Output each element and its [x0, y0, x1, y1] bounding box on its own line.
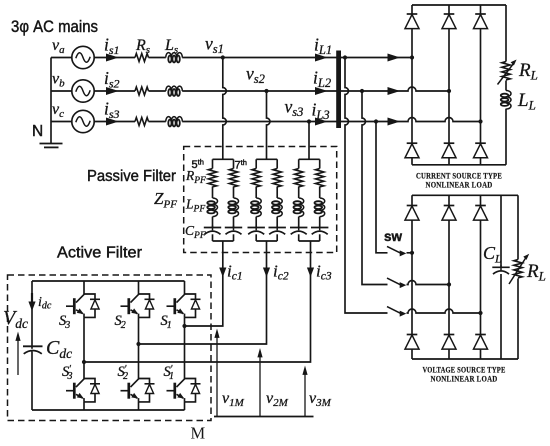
- diode bridge2 bottom leg1: [405, 335, 419, 350]
- wire phase2 to bridge leg2: [182, 87, 449, 91]
- passive filter group 2 top tee: [256, 158, 277, 160]
- inductor LPF branch: [251, 198, 261, 217]
- svg-text:Passive Filter: Passive Filter: [87, 168, 177, 185]
- load current arrow into bridge: [388, 118, 401, 126]
- AC source vc: [72, 110, 94, 132]
- wire: [233, 234, 235, 241]
- switch: [387, 278, 406, 288]
- capacitor branch bridge2: [500, 195, 502, 359]
- wire switch row3 to leg3: [407, 309, 481, 313]
- svg-text:NONLINEAR LOAD: NONLINEAR LOAD: [426, 181, 493, 190]
- junction: [410, 55, 414, 59]
- svg-text:N: N: [32, 123, 43, 140]
- node phase3 feed: [374, 119, 378, 123]
- wire source vc to R: [94, 121, 135, 123]
- passive filter dashed box: [184, 147, 337, 253]
- capacitor Cdc: [23, 346, 43, 354]
- IGBT S3 prime: [66, 379, 100, 402]
- wire leg 2 bottom: [138, 402, 140, 410]
- wire ic3 vertical: [84, 241, 311, 362]
- resistor RPF branch: [229, 169, 237, 187]
- wire switch row1 to leg1: [407, 252, 413, 254]
- load current arrow into bridge: [388, 54, 401, 62]
- diode bridge2 top leg3: [474, 206, 488, 221]
- resistor RPF branch: [208, 169, 216, 187]
- active filter dashed box: [8, 275, 212, 421]
- resistor branch bridge2: [517, 195, 519, 359]
- resistor Rs phase 2: [135, 87, 149, 95]
- bridge2 leg 2: [448, 195, 450, 359]
- capacitor CPF branch: [225, 226, 242, 235]
- diode bridge1 top leg2: [442, 14, 456, 29]
- load current arrow iL before bus: [315, 87, 328, 95]
- switch: [387, 307, 406, 317]
- capacitor CPF branch: [204, 226, 221, 235]
- svg-text:S′3: S′3: [62, 364, 72, 382]
- bridge1 top rail: [412, 4, 506, 6]
- IGBT S1 prime: [167, 379, 201, 402]
- inductor LPF branch: [228, 198, 238, 217]
- current arrow is1: [106, 54, 119, 62]
- wire: [319, 217, 321, 228]
- bridge2 leg 3: [480, 195, 482, 359]
- resistor RPF branch: [295, 169, 303, 187]
- node vs3: [307, 119, 311, 123]
- RLC branch wire top: [212, 159, 214, 168]
- inductor Ls phase 2: [166, 86, 183, 96]
- node vs2: [264, 89, 268, 93]
- svg-text:VOLTAGE SOURCE TYPE: VOLTAGE SOURCE TYPE: [423, 366, 506, 375]
- wire: [233, 187, 235, 199]
- current arrow is3: [106, 118, 119, 126]
- wire phase2 down to switch row2: [362, 91, 388, 285]
- bridge2 leg 1: [411, 195, 413, 359]
- resistor RPF branch: [316, 169, 324, 187]
- node vs1: [221, 55, 225, 59]
- wire leg 1 top: [83, 281, 85, 294]
- wire: [276, 234, 278, 241]
- wire leg 3 bottom: [184, 402, 186, 410]
- passive filter group 3 bottom join: [299, 240, 320, 242]
- arrow ic1: [219, 268, 226, 278]
- IGBT S2: [121, 294, 155, 317]
- arrow ic3: [307, 268, 314, 278]
- capacitor CPF branch: [311, 226, 328, 235]
- wire: [255, 234, 257, 241]
- wire leg 1 bottom: [83, 402, 85, 410]
- wire vs3 down to passive filter: [308, 122, 310, 160]
- diode bridge1 top leg1: [405, 14, 419, 29]
- load branch bridge1: [505, 5, 507, 165]
- wire phase3 down to switch row1: [376, 122, 388, 253]
- dc rail left: [31, 281, 33, 410]
- inductor LPF branch: [294, 198, 304, 217]
- wire R to L phase 3: [149, 121, 166, 123]
- diode bridge2 top leg1: [405, 206, 419, 221]
- arrow ic2: [263, 268, 270, 278]
- junction: [447, 282, 451, 286]
- wire leg 2 middle: [138, 317, 140, 378]
- wire: [319, 234, 321, 241]
- wire leg 1 middle: [83, 317, 85, 378]
- inductor LL bridge1: [501, 91, 511, 110]
- diode bridge1 bottom leg1: [405, 143, 419, 158]
- junction: [410, 251, 414, 255]
- RLC branch wire top: [276, 159, 278, 168]
- capacitor CPF branch: [290, 226, 307, 235]
- wire: [276, 187, 278, 199]
- inductor LPF branch: [207, 198, 217, 217]
- RLC branch wire top: [319, 159, 321, 168]
- wire leg 3 top: [184, 281, 186, 294]
- bus bar: [336, 51, 341, 129]
- junction: [82, 360, 86, 364]
- wire neutral to source va: [51, 57, 72, 59]
- resistor RPF branch: [273, 169, 281, 187]
- AC source vb: [72, 80, 94, 102]
- IGBT S2 prime: [121, 379, 155, 402]
- wire vs1 down to passive filter: [223, 58, 227, 160]
- wire R to L phase 2: [149, 90, 166, 92]
- current arrow idc: [28, 293, 35, 311]
- voltage arrow Vdc: [15, 332, 20, 376]
- junction: [447, 89, 451, 93]
- svg-text:S′1: S′1: [164, 364, 174, 382]
- wire neutral to source vc: [51, 121, 72, 123]
- wire source vb to R: [94, 90, 135, 92]
- resistor RPF branch: [252, 169, 260, 187]
- wire R to L phase 1: [149, 57, 166, 59]
- bridge1 leg 3: [480, 5, 482, 165]
- capacitor CL: [492, 265, 509, 274]
- wire phase3 to bridge leg3: [182, 118, 480, 122]
- svg-text:sw: sw: [384, 229, 403, 244]
- RLC branch wire top: [298, 159, 300, 168]
- diode bridge2 bottom leg3: [474, 335, 488, 350]
- diode bridge1 bottom leg3: [474, 143, 488, 158]
- wire: [255, 217, 257, 228]
- wire source va to R: [94, 57, 135, 59]
- voltage arrow v2M: [257, 348, 262, 417]
- wire phase1 down to switch row3: [345, 58, 388, 314]
- bridge1 bottom rail: [412, 164, 506, 166]
- load current arrow into bridge: [388, 87, 401, 95]
- svg-text:NONLINEAR LOAD: NONLINEAR LOAD: [431, 375, 498, 384]
- junction: [182, 324, 186, 328]
- junction: [478, 311, 482, 315]
- svg-text:CURRENT SOURCE TYPE: CURRENT SOURCE TYPE: [416, 172, 502, 181]
- junction: [136, 342, 140, 346]
- inductor LPF branch: [272, 198, 282, 217]
- passive filter group 3 top tee: [299, 158, 320, 160]
- wire: [319, 187, 321, 199]
- resistor RL bridge2: [509, 254, 529, 284]
- wire switch row2 to leg2: [407, 281, 450, 285]
- wire phase1 to bridge leg1: [182, 57, 412, 59]
- svg-text:3φ AC mains: 3φ AC mains: [11, 18, 98, 36]
- ground: [40, 144, 63, 148]
- bottom rail: [32, 409, 185, 411]
- load current arrow iL before bus: [315, 54, 328, 62]
- diode bridge1 top leg3: [474, 14, 488, 29]
- diode bridge2 top leg2: [442, 206, 456, 221]
- node phase1 feed: [343, 55, 347, 59]
- svg-text:S′2: S′2: [118, 364, 128, 382]
- inductor LPF branch: [315, 198, 325, 217]
- bridge1 leg 2: [448, 5, 450, 165]
- bridge1 leg 1: [411, 5, 413, 165]
- junction: [478, 119, 482, 123]
- wire: [298, 187, 300, 199]
- bridge2 top rail: [412, 194, 518, 196]
- wire neutral to source vb: [51, 90, 72, 92]
- wire: [233, 217, 235, 228]
- capacitor CPF branch: [248, 226, 265, 235]
- wire ic1 vertical: [185, 241, 223, 326]
- capacitor CPF branch: [269, 226, 286, 235]
- wire: [298, 217, 300, 228]
- load current arrow iL before bus: [315, 118, 328, 126]
- diode bridge2 bottom leg2: [442, 335, 456, 350]
- passive filter group 1 bottom join: [213, 240, 234, 242]
- wire: [212, 217, 214, 228]
- resistor Rs phase 1: [135, 54, 149, 62]
- bridge2 bottom rail: [412, 358, 518, 360]
- inductor Ls phase 1: [166, 53, 183, 63]
- neutral bus wire: [50, 58, 52, 144]
- svg-text:M: M: [191, 424, 206, 443]
- M rail: [214, 416, 314, 418]
- RLC branch wire top: [233, 159, 235, 168]
- wire: [212, 187, 214, 199]
- IGBT S3: [66, 294, 100, 317]
- IGBT S1: [167, 294, 201, 317]
- RLC branch wire top: [255, 159, 257, 168]
- wire: [298, 234, 300, 241]
- diode bridge1 bottom leg2: [442, 143, 456, 158]
- current arrow is2: [106, 87, 119, 95]
- resistor Rs phase 3: [135, 118, 149, 126]
- wire vs2 down to passive filter: [267, 91, 271, 159]
- voltage arrow v3M: [302, 366, 307, 417]
- wire leg 2 top: [138, 281, 140, 294]
- node phase2 feed: [360, 89, 364, 93]
- resistor RL bridge1: [498, 60, 517, 85]
- inductor Ls phase 3: [166, 117, 183, 127]
- passive filter group 1 top tee: [213, 158, 234, 160]
- wire: [276, 217, 278, 228]
- svg-text:Active Filter: Active Filter: [57, 245, 143, 262]
- wire: [212, 234, 214, 241]
- switch: [387, 246, 406, 256]
- AC source va: [72, 46, 94, 68]
- wire: [255, 187, 257, 199]
- voltage arrow v1M: [214, 329, 219, 417]
- wire leg 3 middle: [184, 317, 186, 378]
- top rail: [32, 280, 185, 282]
- wire ic2 vertical: [139, 241, 267, 344]
- passive filter group 2 bottom join: [256, 240, 277, 242]
